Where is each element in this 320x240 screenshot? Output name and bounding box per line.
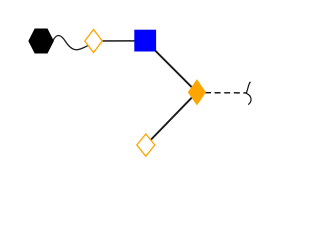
wire filled diamond to lower open diamond xyxy=(146,92,197,145)
node blue square xyxy=(134,30,156,52)
wire dashed continuation from filled diamond xyxy=(205,92,247,94)
node squiggle terminator xyxy=(246,82,251,105)
wire open diamond to blue square xyxy=(94,40,146,42)
node lower open diamond (white fill, orange outline) xyxy=(137,134,155,156)
node black hexagon xyxy=(29,29,53,53)
wire wavy linkage hexagon to open diamond xyxy=(53,36,88,50)
wire blue square to filled diamond xyxy=(145,41,197,93)
node open diamond (white fill, orange outline) xyxy=(85,30,103,53)
node filled orange diamond xyxy=(188,80,205,105)
